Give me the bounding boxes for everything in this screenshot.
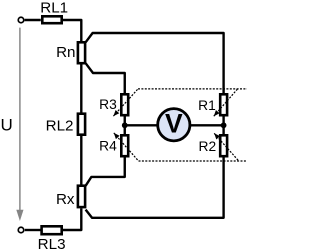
source line U (gray) (19, 28, 21, 211)
svg-text:Rx: Rx (56, 191, 75, 208)
arrowhead R2 (214, 133, 220, 139)
arrowhead R1 (214, 110, 220, 116)
junction node right bridge midpoint (221, 122, 227, 128)
resistor Rx (78, 186, 85, 207)
junction node left bridge midpoint (122, 122, 128, 128)
resistor RL3 (42, 226, 62, 234)
dashed diagonal through R1 (214, 89, 238, 116)
wire Rx top-right diagonal to rail to R4 bottom (86, 158, 125, 186)
svg-text:R3: R3 (99, 97, 117, 112)
resistor R4 (121, 135, 128, 156)
resistor R1 (220, 94, 227, 115)
terminal circle top-left (18, 17, 24, 23)
resistor Rn (78, 42, 85, 63)
dashed coupling bottom rail (139, 160, 248, 162)
terminal circle bottom-left (18, 227, 24, 233)
arrowhead R3 (113, 110, 119, 116)
wire Rx bottom to corner to RL3 (63, 208, 81, 230)
svg-text:R2: R2 (199, 139, 217, 154)
wire RL2 to Rx (80, 136, 82, 185)
svg-text:RL1: RL1 (40, 0, 68, 16)
voltmeter V (158, 109, 190, 141)
wire Rn to RL2 (80, 65, 82, 113)
wire R3 to junction to R4 (124, 117, 126, 135)
wire RL3 to bottom terminal (25, 229, 41, 231)
resistor RL1 (42, 16, 61, 23)
resistor R2 (220, 135, 227, 156)
svg-text:R4: R4 (99, 138, 117, 153)
dashed diagonal through R3 (113, 89, 138, 116)
wire R1 to junction to R2 (222, 117, 224, 135)
svg-text:RL3: RL3 (38, 236, 66, 250)
svg-text:V: V (165, 108, 183, 138)
wire Rx bottom-right diagonal to bottom rail to R2 bottom (86, 158, 224, 218)
arrowhead of U line (16, 210, 23, 221)
dashed coupling top rail (138, 88, 247, 90)
svg-text:Rn: Rn (56, 44, 75, 61)
svg-text:U: U (1, 116, 13, 135)
svg-text:R1: R1 (198, 98, 216, 113)
dashed diagonal through R4 (114, 133, 139, 161)
wire RL1 to corner down to Rn (63, 20, 81, 41)
wire Rn top-right diagonal to top rail, to top-right corner, down to R1 (86, 33, 224, 93)
wire Rn bottom-right diagonal to rail to R3 top (86, 63, 125, 93)
resistor R3 (121, 94, 128, 115)
resistor RL2 (78, 114, 85, 135)
arrowhead R4 (114, 133, 120, 139)
dashed diagonal through R2 (214, 133, 239, 161)
wire top-left from terminal to RL1 (25, 19, 41, 21)
wire voltmeter right to junction (189, 124, 224, 126)
svg-text:RL2: RL2 (46, 117, 74, 134)
wire junction to voltmeter left (125, 124, 159, 126)
